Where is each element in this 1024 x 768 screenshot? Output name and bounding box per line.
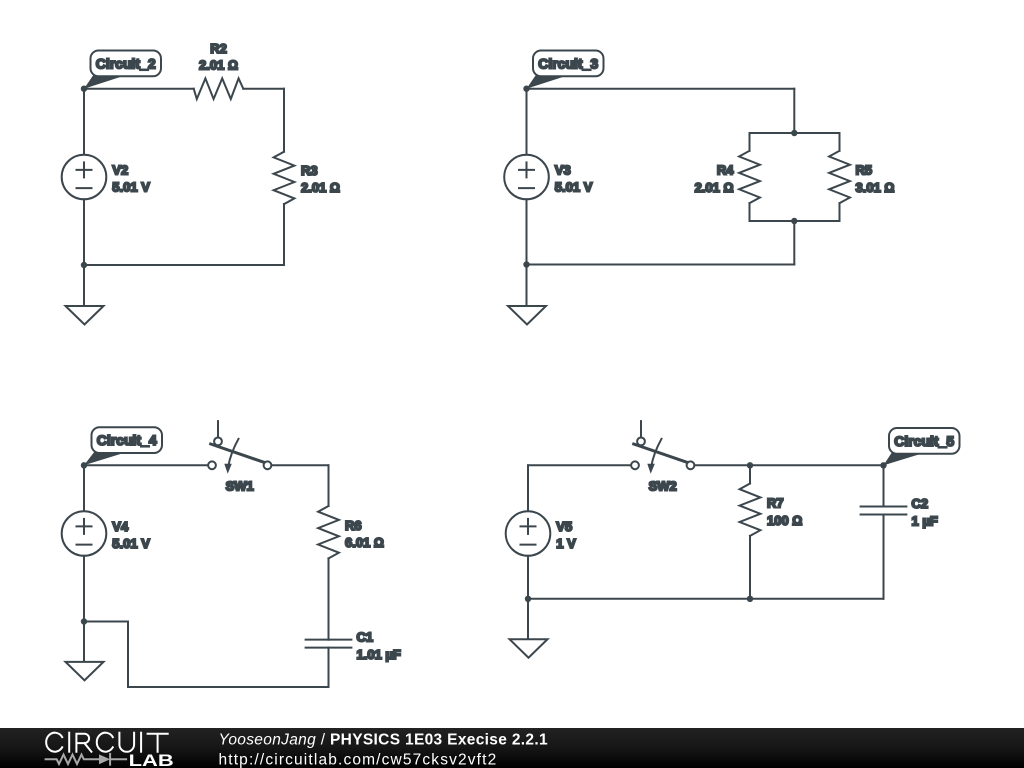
node circuit3 top-left junction <box>523 86 529 92</box>
voltage source V2 <box>62 155 107 200</box>
svg-text:Circuit_2: Circuit_2 <box>96 55 156 71</box>
resistor R2 <box>194 78 244 99</box>
node circuit4 bottom-left junction <box>81 618 87 624</box>
svg-text:SW2: SW2 <box>649 479 677 494</box>
wire R5 top lead <box>839 133 841 151</box>
label R6 value <box>345 518 384 550</box>
capacitor C1 <box>306 640 352 648</box>
wire R7 bottom lead <box>749 536 751 599</box>
wire circuit4 step horizontal to node <box>84 621 128 623</box>
svg-text:5.01 V: 5.01 V <box>555 179 593 194</box>
resistor R3 <box>274 152 295 204</box>
CircuitLab logo CIRCUIT wordmark <box>46 733 168 752</box>
svg-text:R2: R2 <box>210 41 227 56</box>
svg-text:6.01 Ω: 6.01 Ω <box>345 535 384 550</box>
label V2 value <box>112 163 150 195</box>
svg-text:YooseonJang / PHYSICS 1E03 Exe: YooseonJang / PHYSICS 1E03 Execise 2.2.1 <box>219 732 549 749</box>
resistor R6 <box>318 506 339 558</box>
node circuit2 top-left junction <box>81 86 87 92</box>
node circuit4 top-left junction <box>81 462 87 468</box>
svg-text:2.01 Ω: 2.01 Ω <box>695 180 734 195</box>
svg-text:R6: R6 <box>345 518 362 533</box>
svg-text:C1: C1 <box>357 629 374 644</box>
capacitor C2 <box>861 507 907 515</box>
svg-text:R3: R3 <box>301 163 318 178</box>
wire circuit2 right vertical upper <box>283 89 285 152</box>
wire circuit2 top-left horizontal <box>84 88 194 90</box>
wire R4 top lead <box>749 133 751 151</box>
wire circuit5 switch to R7 junction <box>694 464 750 466</box>
svg-text:V2: V2 <box>112 163 128 178</box>
wire C2 top lead <box>883 465 885 506</box>
label V5 value <box>556 519 576 551</box>
svg-text:100 Ω: 100 Ω <box>767 513 802 528</box>
wire R7 top lead <box>749 465 751 483</box>
resistor R4 <box>739 151 760 203</box>
label R2 value <box>199 41 238 73</box>
label V3 value <box>555 163 593 195</box>
svg-text:1 V: 1 V <box>556 536 576 551</box>
wire circuit2 bottom horizontal <box>84 264 284 266</box>
svg-text:2.01 Ω: 2.01 Ω <box>199 58 238 73</box>
resistor R7 <box>740 484 761 536</box>
svg-text:R7: R7 <box>767 495 784 510</box>
svg-text:1.01 µF: 1.01 µF <box>357 647 401 662</box>
wire circuit2 right vertical lower <box>283 204 285 265</box>
wire circuit3 parallel bottom bus <box>750 220 840 222</box>
svg-text:5.01 V: 5.01 V <box>112 536 150 551</box>
wire circuit4 right vertical upper <box>328 465 330 506</box>
label C1 value <box>357 629 401 662</box>
wire circuit3 ground stem <box>526 265 528 307</box>
wire circuit3 left vertical upper <box>526 89 528 155</box>
voltage source V5 <box>506 511 551 556</box>
wire circuit2 ground stem <box>83 265 85 306</box>
wire circuit4 top horizontal to switch <box>84 464 208 466</box>
node label callout Circuit_3 <box>527 51 604 89</box>
switch SW2 <box>631 421 694 474</box>
wire circuit2 top-right horizontal <box>243 88 284 90</box>
node label callout Circuit_5 <box>884 428 960 465</box>
node circuit3 parallel bottom junction <box>791 218 797 224</box>
svg-text:R4: R4 <box>717 163 734 178</box>
voltage source V4 <box>62 511 107 556</box>
wire circuit3 left vertical lower <box>526 199 528 264</box>
ground circuit5 <box>510 639 548 658</box>
svg-text:5.01 V: 5.01 V <box>112 179 150 194</box>
svg-text:2.01 Ω: 2.01 Ω <box>301 180 340 195</box>
wire circuit5 ground stem <box>527 599 529 639</box>
wire circuit4 below C1 <box>328 648 330 687</box>
wire circuit4 ground stem <box>83 622 85 662</box>
wire C2 bottom lead <box>883 515 885 599</box>
svg-text:C2: C2 <box>912 496 929 511</box>
switch SW1 <box>208 421 271 474</box>
wire circuit3 top horizontal <box>527 88 795 90</box>
wire circuit4 step vertical <box>127 622 129 688</box>
CircuitLab logo resistor-diode squiggle <box>46 754 127 765</box>
wire circuit2 left vertical upper <box>83 89 85 155</box>
svg-text:R5: R5 <box>856 163 873 178</box>
node circuit5 bottom-left junction <box>525 596 531 602</box>
node circuit5 R7 top junction <box>747 462 753 468</box>
svg-text:V4: V4 <box>112 519 129 534</box>
svg-text:LAB: LAB <box>129 751 174 768</box>
wire circuit3 parallel top bus <box>750 132 840 134</box>
svg-text:Circuit_3: Circuit_3 <box>538 55 598 71</box>
wire R5 bottom lead <box>839 203 841 221</box>
wire circuit4 switch to corner <box>271 464 328 466</box>
label R3 value <box>301 163 340 195</box>
node label callout Circuit_4 <box>84 427 162 465</box>
label V4 value <box>112 519 150 551</box>
node circuit5 R7 bottom junction <box>747 596 753 602</box>
wire circuit2 left vertical lower <box>83 199 85 265</box>
svg-text:Circuit_4: Circuit_4 <box>97 432 157 448</box>
label R4 value <box>695 163 735 195</box>
wire circuit3 bottom horizontal <box>527 264 795 266</box>
wire R4 bottom lead <box>749 203 751 221</box>
wire circuit5 top horizontal to switch <box>528 464 631 466</box>
wire circuit5 left vertical lower <box>527 556 529 599</box>
ground circuit2 <box>66 306 104 325</box>
wire circuit4 right vertical middle <box>328 558 330 639</box>
ground circuit3 <box>508 306 546 325</box>
node circuit3 parallel top junction <box>791 130 797 136</box>
label C2 value <box>912 496 938 528</box>
wire circuit5 R7 junction to C2 node <box>750 464 884 466</box>
wire circuit3 vertical below parallel <box>793 221 795 265</box>
voltage source V3 <box>504 155 549 200</box>
svg-text:V3: V3 <box>555 163 571 178</box>
wire circuit3 right vertical to parallel <box>793 89 795 133</box>
svg-text:1 µF: 1 µF <box>912 514 938 529</box>
label R5 value <box>856 163 895 195</box>
svg-text:SW1: SW1 <box>226 479 254 494</box>
svg-text:3.01 Ω: 3.01 Ω <box>856 180 895 195</box>
svg-text:http://circuitlab.com/cw57cksv: http://circuitlab.com/cw57cksv2vft2 <box>219 751 498 768</box>
ground circuit4 <box>66 662 104 681</box>
node circuit2 bottom-left junction <box>81 262 87 268</box>
wire circuit5 bottom horizontal <box>528 598 884 600</box>
label R7 value <box>767 495 802 527</box>
node circuit3 bottom-left junction <box>523 261 529 267</box>
node circuit5 C2 top junction <box>880 462 886 468</box>
node label callout Circuit_2 <box>84 51 161 89</box>
svg-text:Circuit_5: Circuit_5 <box>894 433 954 449</box>
wire circuit4 left vertical upper <box>83 465 85 511</box>
wire circuit5 left vertical upper <box>527 465 529 511</box>
wire circuit4 bottom horizontal <box>128 686 329 688</box>
svg-text:V5: V5 <box>556 519 572 534</box>
wire circuit4 left vertical lower <box>83 556 85 622</box>
resistor R5 <box>829 151 850 203</box>
